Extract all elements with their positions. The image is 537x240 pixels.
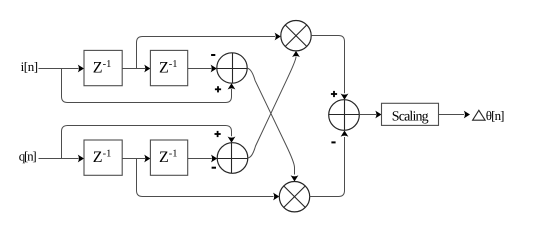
svg-text:θ[n]: θ[n]	[486, 108, 505, 123]
wire q[n-1] tap down to bottom multiplier M2	[137, 159, 280, 201]
svg-text:Z-1: Z-1	[159, 59, 178, 77]
svg-text:q[n]: q[n]	[19, 149, 37, 164]
wire S3 to scaling block	[359, 111, 381, 119]
wire Z1 to Z2 (i-chain)	[122, 65, 150, 73]
wire S2 output crossing up to top multiplier M1	[248, 51, 300, 158]
svg-text:Z-1: Z-1	[93, 59, 112, 77]
wire scaling block to output	[439, 111, 471, 119]
svg-text:Scaling: Scaling	[392, 109, 429, 124]
delay block Z1 (i-chain)	[84, 50, 122, 85]
multiplier M2 (bottom)	[279, 182, 309, 212]
scaling block	[382, 103, 439, 125]
svg-text:Z-1: Z-1	[159, 149, 178, 167]
minus label at S2 left input	[212, 167, 216, 169]
delay block Z4 (q-chain)	[150, 140, 187, 175]
delay block Z2 (i-chain)	[150, 50, 187, 85]
multiplier M1 (top)	[281, 21, 311, 51]
wire M2 output to final summer S3 minus input	[310, 131, 349, 197]
summer S2 (q[n] - q[n-2])	[217, 143, 248, 174]
plus label at S2 top input	[215, 131, 221, 137]
plus label at S3 top input	[331, 91, 337, 97]
wire M1 output to final summer S3 plus input	[311, 36, 348, 100]
summer S1 (i[n] - i[n-2])	[217, 53, 247, 83]
svg-text:Z-1: Z-1	[93, 149, 112, 167]
wire Z2 to top summer S1	[188, 65, 217, 73]
delay block Z3 (q-chain)	[84, 140, 122, 175]
plus label at S1 bottom input	[215, 86, 221, 92]
wire i[n] tap down into S1 plus input	[62, 69, 236, 103]
wire q[n] tap up into S2 plus input	[62, 126, 236, 159]
minus label at S3 bottom input	[331, 141, 335, 143]
svg-text:i[n]: i[n]	[21, 59, 38, 74]
output label delta-theta[n]	[473, 108, 505, 123]
wire i[n-1] tap up to top multiplier M1	[137, 33, 281, 69]
wire S1 output crossing down to bottom multiplier M2	[247, 68, 298, 181]
summer S3 (final difference)	[329, 100, 360, 131]
wire i[n] to Z1	[39, 65, 85, 73]
minus label at S1 left input	[211, 54, 215, 56]
wire Z3 to Z4 (q-chain)	[122, 155, 150, 163]
wire Z4 to bottom summer S2	[188, 155, 218, 163]
wire q[n] to Z3	[39, 155, 85, 163]
